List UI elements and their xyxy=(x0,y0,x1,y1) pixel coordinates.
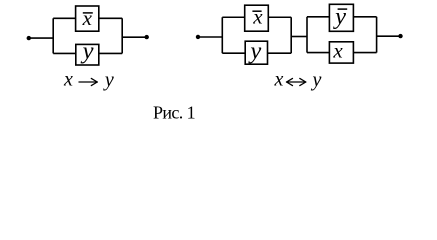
svg-text:y: y xyxy=(247,37,261,64)
svg-text:x: x xyxy=(252,5,263,29)
svg-text:x: x xyxy=(274,69,284,91)
svg-text:y: y xyxy=(332,3,346,30)
svg-text:Рис. 1: Рис. 1 xyxy=(153,103,195,123)
svg-text:y: y xyxy=(103,69,114,91)
svg-text:x: x xyxy=(63,69,73,91)
svg-text:y: y xyxy=(80,37,94,64)
svg-text:y: y xyxy=(311,69,322,91)
svg-text:x: x xyxy=(332,39,343,63)
svg-text:x: x xyxy=(82,6,93,30)
